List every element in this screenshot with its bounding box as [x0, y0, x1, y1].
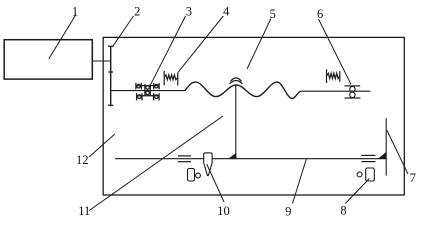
string right segment	[301, 90, 370, 92]
leader 6	[319, 19, 352, 84]
leader 5	[247, 19, 271, 70]
svg-text:9: 9	[285, 204, 291, 218]
sensor knob 10	[196, 173, 201, 178]
bench rail 9	[115, 158, 386, 160]
svg-text:7: 7	[410, 171, 416, 185]
svg-text:12: 12	[76, 153, 89, 167]
vibration arc upper	[231, 78, 242, 82]
left bridge marks	[178, 156, 191, 162]
svg-text:3: 3	[186, 4, 192, 18]
spring sensor 6 upper	[327, 69, 340, 83]
leader 11	[89, 116, 223, 211]
svg-text:4: 4	[223, 4, 230, 18]
sensor box 10	[188, 169, 195, 182]
leader 2	[112, 16, 133, 47]
wire connector box to rod	[92, 60, 110, 62]
svg-text:6: 6	[317, 7, 323, 21]
frame box 12	[103, 37, 404, 195]
string left segment	[111, 90, 185, 92]
spring sensor 4	[164, 71, 178, 86]
roller guide 3	[136, 83, 159, 101]
vibrating rod 2	[108, 46, 113, 106]
leader 4	[178, 16, 223, 72]
tension clamp 6	[345, 86, 361, 98]
svg-text:1: 1	[72, 4, 78, 18]
vibration arc over center crest	[230, 81, 243, 85]
svg-text:2: 2	[134, 4, 140, 18]
end post 7	[385, 118, 387, 175]
sensor box 8	[366, 168, 375, 181]
vibrator box 1	[4, 40, 92, 79]
leader 7	[387, 130, 408, 174]
leader 1	[49, 15, 76, 59]
center rod foot wedge	[230, 154, 236, 158]
leader 3	[151, 16, 186, 84]
leader 9	[293, 159, 307, 204]
end post foot wedge	[380, 153, 386, 158]
leader 12	[89, 134, 115, 157]
standing wave on string 5	[185, 82, 301, 98]
pen probe 10	[204, 153, 212, 176]
right bridge marks	[361, 155, 375, 161]
leader 8	[345, 179, 369, 204]
center support rod under wave	[235, 85, 237, 158]
sensor knob 8	[357, 172, 362, 177]
svg-text:8: 8	[340, 203, 346, 217]
svg-text:10: 10	[217, 204, 230, 218]
svg-text:5: 5	[270, 7, 276, 21]
leader 10	[207, 164, 224, 202]
svg-text:11: 11	[78, 204, 90, 218]
